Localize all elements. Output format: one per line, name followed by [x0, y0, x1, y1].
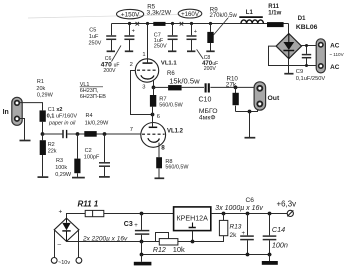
capacitor C2 label [84, 148, 100, 160]
wire R10 bottom to Out bottom [236, 106, 258, 112]
capacitor C1 label [47, 107, 78, 127]
svg-text:R4: R4 [86, 113, 93, 119]
scan artifact line [28, 15, 180, 19]
terminal circle left [51, 258, 57, 264]
svg-text:In: In [3, 109, 9, 116]
svg-text:27k: 27k [226, 81, 237, 88]
ground under Out [245, 137, 256, 139]
svg-text:KBL06: KBL06 [296, 24, 318, 31]
node test-point x mark 2 [180, 22, 184, 26]
svg-text:0,1uF/250V: 0,1uF/250V [296, 76, 326, 82]
wire In top to R1 [20, 103, 43, 111]
svg-text:0,29W: 0,29W [37, 93, 54, 99]
node C6 junction [246, 212, 250, 216]
resistor R7 label [159, 97, 183, 109]
wire bridge to R11_1 [67, 214, 86, 219]
node test-point x mark [136, 22, 140, 26]
triode VL1.2 [141, 107, 166, 158]
resistor R13 [219, 214, 227, 236]
svg-text:7: 7 [130, 127, 133, 133]
ground under C8 [187, 50, 195, 52]
node R10 junction [234, 86, 238, 90]
trimmer R12 label [153, 245, 185, 254]
resistor R2 label [48, 142, 57, 155]
svg-text:Out: Out [268, 95, 280, 102]
terminal +6,3v [287, 210, 293, 216]
wire junction to C1 [43, 133, 63, 135]
wire bridge AC leads [55, 230, 79, 258]
resistor R11 1 (PSU) [85, 210, 104, 216]
capacitor C10 [206, 83, 209, 92]
ground under R2 [38, 176, 49, 178]
capacitor C8 [187, 24, 197, 51]
svg-text:560/0,5W: 560/0,5W [165, 164, 189, 170]
capacitor C1 [63, 130, 67, 138]
svg-text:1k/0,29W: 1k/0,29W [85, 120, 109, 126]
triode VL1.1 [135, 24, 158, 88]
svg-text:+: + [132, 29, 135, 35]
svg-text:paper in oil: paper in oil [48, 121, 76, 127]
node C14 junction [268, 212, 272, 216]
connector AC labels [329, 42, 344, 71]
svg-text:L1: L1 [246, 10, 254, 16]
ground under R9 [206, 50, 214, 52]
ground under R8 [155, 177, 165, 179]
resistor R13 label [230, 224, 242, 239]
svg-text:VL1.1: VL1.1 [161, 60, 177, 66]
resistor R11 [267, 22, 284, 27]
ground under C2 [99, 176, 110, 178]
svg-text:R11 1: R11 1 [78, 199, 99, 208]
resistor R6 [168, 85, 182, 90]
svg-text:0,29W: 0,29W [55, 172, 72, 178]
resistor R11 label [268, 4, 281, 17]
svg-text:270k/0,5w: 270k/0,5w [210, 13, 238, 19]
inductor L1 [239, 17, 263, 23]
svg-text:+: + [194, 29, 197, 35]
svg-text:C14: C14 [272, 225, 285, 234]
bridge rectifier D1 [276, 34, 301, 59]
svg-text:2k: 2k [230, 232, 238, 239]
node +150V oval [117, 9, 144, 18]
resistor R9 [207, 24, 213, 51]
svg-text:+160V: +160V [181, 11, 200, 18]
ground under C6 [125, 50, 133, 52]
svg-text:R3: R3 [56, 158, 63, 164]
wire In bottom to ground [20, 119, 25, 140]
resistor R4 label [85, 113, 109, 126]
resistor R5 [153, 22, 165, 26]
resistor R8 label [165, 159, 189, 170]
wire down to ground [249, 112, 251, 138]
wire bridge to AC top [302, 45, 318, 47]
svg-text:R1: R1 [37, 79, 44, 85]
wire lower ground rail [142, 242, 272, 255]
connector AC [316, 39, 325, 73]
connector Out [254, 82, 266, 110]
node C3 bottom junction [140, 240, 144, 244]
svg-text:+: + [134, 223, 138, 229]
svg-text:AC: AC [330, 64, 340, 71]
capacitor C9 label [296, 69, 326, 82]
svg-text:+150V: +150V [121, 11, 140, 18]
svg-text:C10: C10 [199, 97, 212, 104]
resistor R1 label [36, 79, 53, 99]
svg-text:+6,3v: +6,3v [277, 200, 297, 209]
svg-text:22k: 22k [48, 149, 57, 155]
capacitor C6 (PSU) [240, 214, 254, 255]
terminal circle right [76, 258, 82, 264]
svg-text:15k/0.5w: 15k/0.5w [169, 76, 200, 85]
ground under C7 [168, 50, 176, 52]
capacitor C14 [263, 214, 277, 255]
wire VL1.1 grid loop [131, 71, 153, 115]
svg-text:100n: 100n [272, 240, 288, 249]
wire C10 to Out [210, 86, 257, 88]
resistor R2 [40, 134, 46, 176]
ground under bridge D1 [284, 59, 293, 74]
capacitor C5 [106, 24, 116, 51]
svg-text:R12: R12 [153, 247, 166, 254]
capacitor C10 label [199, 97, 218, 122]
node lower rail C14 [268, 253, 272, 257]
resistor R8 [156, 157, 162, 177]
resistor R10 label [226, 76, 239, 89]
svg-text:AC: AC [330, 42, 340, 49]
node lower rail left [140, 253, 144, 257]
bridge rectifier PSU [54, 218, 79, 241]
svg-text:1/1w: 1/1w [268, 11, 281, 17]
svg-text:+: + [59, 209, 63, 216]
node R13 junction [222, 212, 226, 216]
resistor R3 [74, 134, 80, 177]
resistor R1 [40, 110, 46, 134]
svg-text:1uF: 1uF [89, 34, 99, 40]
ground under C5 [107, 50, 115, 52]
svg-text:VL1.2: VL1.2 [167, 128, 184, 134]
resistor R3 label [55, 158, 72, 178]
resistor R5 label [147, 3, 172, 16]
svg-text:250V: 250V [89, 40, 102, 46]
node junction [248, 110, 252, 114]
node junction dots on rail [128, 22, 212, 25]
wire R11_1 to KREN [104, 213, 174, 215]
svg-text:6: 6 [157, 114, 160, 120]
capacitor C8 value label with callout [197, 49, 219, 72]
svg-text:КРЕН12А: КРЕН12А [177, 214, 209, 222]
svg-text:3: 3 [142, 85, 145, 91]
wire PSU minus rail [67, 236, 224, 242]
resistor R7 [150, 87, 156, 114]
bridge D1 label [296, 16, 318, 31]
svg-text:R2: R2 [48, 142, 55, 148]
svg-text:–: – [58, 241, 62, 248]
capacitor C7 [168, 24, 178, 51]
node R4/C2 junction [103, 132, 107, 136]
svg-text:C5: C5 [89, 28, 96, 34]
tube VL1 type label [80, 82, 107, 100]
capacitor C3 label [124, 221, 139, 229]
capacitor C9 [302, 46, 311, 66]
node C3 top junction [140, 212, 144, 216]
capacitor C5 value label [89, 28, 102, 47]
capacitor C2 [99, 134, 110, 176]
wire R6 to C10 [182, 86, 204, 88]
svg-text:0,1 uF/160V: 0,1 uF/160V [47, 114, 78, 120]
wire top supply rail [112, 24, 289, 34]
wire KREN ground pin [192, 231, 194, 242]
svg-text:20k: 20k [36, 86, 45, 92]
capacitor C6 value label with callout [101, 46, 121, 75]
resistor R4 [84, 131, 96, 137]
trimmer R12 [156, 233, 178, 246]
node pin3 junction [152, 86, 156, 90]
svg-text:R11: R11 [268, 4, 279, 10]
svg-text:100pF: 100pF [84, 154, 100, 160]
capacitor C14 label [272, 225, 288, 249]
capacitor C6 [124, 24, 134, 51]
svg-text:250V: 250V [154, 43, 167, 49]
capacitor C3 [135, 214, 149, 242]
svg-text:8: 8 [161, 144, 165, 151]
svg-text:4мкФ: 4мкФ [199, 114, 216, 121]
resistor R9 label with callout [210, 6, 238, 35]
ground under In [20, 140, 31, 142]
svg-text:C3: C3 [124, 221, 133, 228]
svg-text:2: 2 [130, 62, 133, 68]
svg-text:3x 1000µ x 16v: 3x 1000µ x 16v [215, 205, 263, 212]
ground under R3 [72, 177, 85, 179]
svg-text:C9: C9 [296, 69, 303, 75]
node R1/C1 junction [41, 132, 45, 136]
svg-text:6Н23П-ЕВ: 6Н23П-ЕВ [80, 94, 107, 100]
node KREN pin junction [191, 240, 195, 244]
wire cathode to R6 [154, 86, 169, 88]
svg-text:~ 110V: ~ 110V [329, 52, 344, 57]
svg-text:C1 x2: C1 x2 [48, 107, 63, 113]
regulator U1 KREN12A [174, 207, 211, 231]
node C1/R3 junction [76, 132, 80, 136]
svg-text:~10v: ~10v [58, 260, 70, 266]
wire KREN output rail [211, 213, 287, 215]
resistor R6 label [167, 71, 200, 85]
svg-text:200V: 200V [103, 68, 116, 74]
svg-text:D1: D1 [298, 16, 306, 22]
svg-text:R13: R13 [230, 224, 242, 231]
wire C1 to R4 to VL1.2 grid [67, 133, 141, 135]
svg-text:560/0.5W: 560/0.5W [159, 102, 183, 108]
svg-text:10k: 10k [173, 245, 185, 254]
node lower rail C6 [246, 253, 250, 257]
capacitor C7 value label [154, 32, 167, 49]
resistor R10 [233, 87, 239, 111]
svg-text:C6: C6 [246, 197, 255, 204]
svg-text:200V: 200V [204, 66, 217, 72]
node pin6 junction [151, 113, 155, 117]
ground bar right PSU [262, 255, 278, 265]
svg-text:100k: 100k [55, 165, 67, 171]
ground bar left PSU [134, 255, 152, 266]
wire bridge AC loop [269, 46, 318, 65]
svg-text:3,3k/2W: 3,3k/2W [147, 10, 172, 17]
node +160V oval [178, 9, 202, 18]
connector In [12, 97, 22, 125]
svg-text:C2: C2 [85, 148, 92, 154]
svg-text:1: 1 [142, 52, 145, 58]
